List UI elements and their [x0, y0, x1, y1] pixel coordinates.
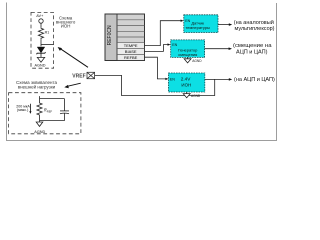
block U2 bias generator [171, 40, 205, 58]
svg-text:2.4V: 2.4V [181, 77, 192, 82]
wire stub above load loop [39, 96, 41, 99]
annotation arrow to load box [64, 83, 80, 88]
svg-text:(на аналоговый: (на аналоговый [234, 19, 274, 26]
svg-text:AGND: AGND [35, 63, 46, 67]
svg-text:(на АЦП и ЦАП): (на АЦП и ЦАП) [234, 77, 275, 83]
wire load loop bottom [40, 120, 65, 122]
pin symbol VREF [87, 72, 95, 78]
label: to analog multiplexer [234, 19, 275, 32]
wire load loop top [40, 98, 65, 100]
wire bias output [205, 47, 232, 50]
svg-text:AGND: AGND [192, 59, 202, 63]
zener diode D1 [37, 47, 46, 54]
svg-text:температуры: температуры [185, 25, 210, 30]
wire [40, 23, 42, 27]
wire [40, 53, 42, 57]
label: Схема эквивалента внешней нагрузки [16, 80, 57, 89]
wire TEMPE to temp sensor EN [145, 20, 184, 46]
current direction arrow [29, 104, 31, 114]
ground AGND (box1) [35, 57, 46, 67]
resistor R1 [38, 27, 49, 39]
label: bias to ADC and DAC [233, 43, 272, 55]
svg-text:(макс.): (макс.) [17, 108, 28, 112]
block U1 temperature sensor [184, 15, 218, 33]
register REF0CN [105, 14, 145, 61]
svg-text:EN: EN [185, 19, 190, 23]
wire VREF net loop [95, 75, 215, 95]
svg-text:REFBE: REFBE [124, 55, 138, 60]
svg-text:(смещение на: (смещение на [233, 43, 272, 49]
bit TEMPE [124, 43, 138, 48]
ground AGND (voltage reference) [183, 92, 201, 98]
svg-text:внешней нагрузки: внешней нагрузки [18, 84, 56, 90]
current label 200 uA max [16, 104, 30, 112]
svg-text:AGND: AGND [34, 130, 45, 134]
wire reference output [205, 78, 232, 81]
figure outer border [7, 3, 277, 141]
node AV+ label [36, 14, 44, 18]
resistor Rref [37, 99, 53, 121]
svg-text:АЦП и ЦАП): АЦП и ЦАП) [236, 49, 268, 55]
svg-text:VREF: VREF [72, 73, 85, 79]
node VREF label [72, 73, 85, 79]
label: Схема внешнего ИОН [56, 16, 76, 29]
dashed box: equivalent external load [9, 93, 81, 134]
svg-text:R1: R1 [45, 31, 50, 35]
wire tap to box edge [41, 44, 54, 46]
svg-text:ИОН: ИОН [181, 82, 191, 87]
svg-text:EN: EN [172, 43, 177, 47]
svg-text:REF: REF [47, 110, 53, 114]
wire BIASE to bias generator EN [145, 43, 171, 51]
wire temp sensor output [218, 23, 232, 26]
block U3 2.4V voltage reference [169, 73, 205, 92]
dashed box: external reference circuit [31, 12, 54, 68]
terminal circle AV+ [39, 19, 43, 23]
bit BIASE [125, 49, 137, 54]
svg-text:EN: EN [170, 77, 175, 81]
ground AGND (load box) [34, 121, 45, 135]
svg-text:мультиплексор): мультиплексор) [235, 26, 275, 32]
svg-text:AGND: AGND [191, 94, 201, 98]
capacitor C1 [60, 99, 69, 121]
svg-text:AV+: AV+ [36, 14, 44, 18]
svg-text:ИОН: ИОН [61, 24, 71, 29]
svg-text:TEMPE: TEMPE [124, 43, 138, 48]
label: to ADC and DAC [234, 77, 275, 83]
wire REFBE to VREF buffer EN [145, 57, 169, 80]
bit REFBE [124, 55, 138, 60]
svg-text:REF0CN: REF0CN [107, 25, 113, 45]
ground AGND (bias generator) [184, 57, 202, 63]
svg-text:BIASE: BIASE [125, 49, 137, 54]
annotation arrow to external ref box [58, 47, 88, 67]
svg-text:смещения: смещения [178, 52, 197, 57]
wire [40, 39, 42, 46]
